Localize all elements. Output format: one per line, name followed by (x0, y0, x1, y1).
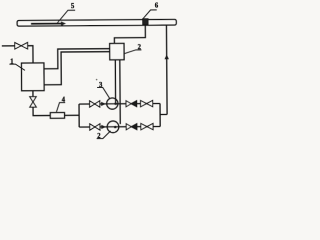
wire: valve to heater 4 (33, 107, 50, 116)
control wire: controller 2 to pump 3 (114, 60, 116, 104)
flow arrow into pump 3 (101, 102, 106, 106)
wire B: controller 2 to unit 1 (44, 52, 110, 85)
svg-text:4: 4 (62, 97, 66, 104)
valve (inlet bowtie valve) (15, 42, 28, 49)
label 6 with leader (143, 3, 159, 19)
svg-text:2: 2 (137, 44, 141, 51)
wire: top pump line (79, 103, 160, 106)
label 2 (controller) with leader (124, 44, 141, 53)
valve (vertical bowtie under unit 1) (30, 97, 37, 108)
paper speck (96, 79, 98, 81)
valve (bottom line suction bowtie) (90, 124, 100, 130)
svg-text:3: 3 (99, 82, 103, 89)
svg-text:1: 1 (10, 58, 14, 65)
svg-text:5: 5 (71, 3, 75, 10)
sensor 6 (duct sensor box) (143, 19, 148, 25)
wire: riser to duct (165, 25, 168, 115)
wire: heater 4 to pump manifold (64, 114, 79, 116)
wire: pump suction manifold vertical (78, 104, 80, 127)
valve (bottom line discharge bowtie) (141, 123, 153, 129)
svg-text:6: 6 (155, 3, 159, 10)
label 5 with leader (57, 3, 75, 23)
wire: sensor 6 to controller 2 (114, 25, 145, 44)
wire: valve to unit 1 (28, 46, 33, 63)
label 3 with leader (97, 82, 110, 99)
duct 5 (supply air duct) (17, 19, 176, 26)
valve (top line suction bowtie) (90, 101, 100, 107)
wire: bottom pump line (79, 126, 160, 129)
label 4 with leader (56, 97, 65, 112)
wire: header jog to riser (160, 113, 167, 115)
wire A: unit 1 to controller 2 (44, 49, 110, 69)
heater 4 (50, 113, 64, 119)
label 1 with leader (9, 58, 25, 70)
check valve (bottom line) (126, 124, 137, 130)
flow arrow up on riser (164, 54, 168, 59)
controller box 2 (110, 43, 124, 59)
control wire: controller 2 to pump 2 (119, 60, 121, 124)
pump 2 (circle) (107, 121, 119, 133)
flow arrow into pump 2 (101, 125, 106, 129)
pump 3 (circle) (107, 98, 118, 109)
svg-text:2: 2 (97, 133, 101, 140)
supply air flow arrow inside duct (31, 21, 66, 26)
unit box 1 (21, 63, 44, 91)
wire: discharge header vertical (159, 104, 161, 127)
check valve (top line) (126, 101, 137, 107)
valve (top line discharge bowtie) (140, 100, 152, 106)
wire: unit 1 down to valve (32, 91, 34, 97)
label 2 (pump) with leader (97, 131, 111, 140)
wire: fresh air inlet (2, 45, 15, 47)
